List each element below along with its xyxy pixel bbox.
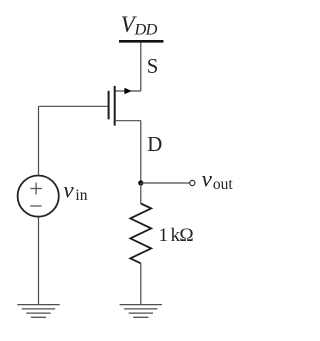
wire vin to ground (38, 217, 40, 305)
source V1 circle (18, 176, 59, 217)
wire VDD rail to source (140, 43, 142, 92)
source V1 plus sign (30, 183, 42, 195)
wire gate corner down to vin (38, 106, 40, 175)
power rail VDD bar (119, 40, 164, 43)
wire output node to terminal (141, 182, 190, 184)
svg-text:1 kΩ: 1 kΩ (159, 225, 194, 246)
transistor Q1 channel bar (114, 86, 116, 126)
resistor R1 zigzag (130, 204, 151, 264)
wire resistor to ground (140, 263, 142, 304)
svg-text:S: S (147, 55, 159, 78)
wire gate lead (39, 105, 109, 107)
transistor Q1 source arrow (124, 88, 131, 95)
svg-text:D: D (147, 133, 162, 156)
ground right (120, 305, 162, 318)
svg-text:in: in (75, 187, 87, 204)
svg-text:v: v (63, 178, 74, 203)
transistor Q1 gate bar (108, 91, 110, 120)
transistor Q1 source lead (115, 90, 141, 92)
svg-text:v: v (202, 166, 213, 191)
source V1 minus sign (30, 205, 41, 207)
ground left (17, 305, 59, 318)
svg-text:DD: DD (134, 20, 158, 39)
svg-text:out: out (213, 176, 234, 193)
wire drain to output node (140, 121, 142, 183)
node VDD label (121, 12, 158, 39)
junction dot output node (138, 180, 143, 185)
wire node to resistor top (140, 183, 142, 204)
node vin label (63, 178, 87, 205)
node vout label (202, 166, 234, 193)
transistor Q1 drain lead (115, 120, 141, 122)
terminal vout open circle (190, 180, 195, 185)
